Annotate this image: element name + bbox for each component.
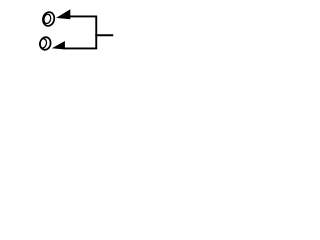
jack J1 (top input jack) (42, 11, 56, 27)
vertical bus wire joining J1 and J2 (95, 16, 97, 50)
output stub wire (95, 34, 113, 36)
outer rim ellipse of J1 (42, 11, 56, 27)
jack J2 (bottom input jack) (39, 36, 52, 51)
wire from J1 to node (70, 15, 97, 17)
outer rim ellipse of J2 (39, 36, 52, 51)
arrow (plug) into J2 (52, 41, 65, 50)
arrow (plug) into J1 (56, 9, 70, 19)
inner hole ellipse of J1 (43, 14, 52, 25)
inner hole ellipse of J2 (39, 38, 48, 49)
wire from J2 to node (64, 47, 96, 49)
